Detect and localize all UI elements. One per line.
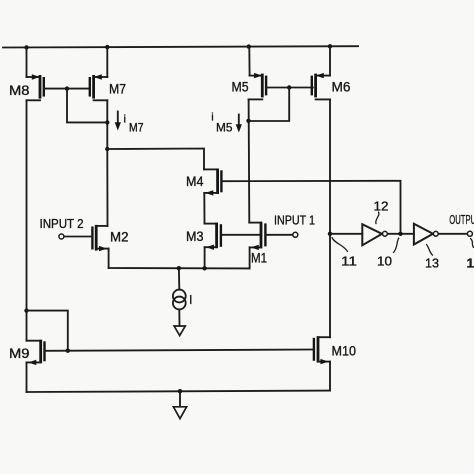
svg-text:M8: M8 <box>9 83 30 98</box>
wire M6 drain down to M10 <box>329 99 331 337</box>
bubble of inverter 12 <box>383 231 388 236</box>
node 11 junction on M6 drain <box>328 232 332 236</box>
wire M4 gate to node 10 <box>221 181 400 234</box>
svg-text:M7: M7 <box>129 121 144 135</box>
transistor M4 <box>204 169 221 196</box>
svg-text:M4: M4 <box>186 174 204 189</box>
wire M10 source down <box>329 362 331 391</box>
top supply rail <box>3 46 358 47</box>
inverter 13 <box>414 224 433 245</box>
svg-text:i: i <box>211 112 213 124</box>
svg-text:M7: M7 <box>109 82 126 97</box>
wire node to M4 drain <box>107 149 204 170</box>
transistor M3 <box>205 223 221 250</box>
current source I <box>173 268 186 326</box>
node tail/M3 source <box>202 266 206 270</box>
node M7 drain/gate link <box>105 120 109 124</box>
terminal INPUT 2 <box>59 234 64 239</box>
wire M4 source to M3 drain <box>203 193 205 224</box>
terminal OUTPUT <box>467 231 472 236</box>
wire M5 drain down to M1 drain <box>248 99 251 222</box>
tail rail wire <box>109 267 250 269</box>
wire M5/M6 gate link <box>266 87 313 89</box>
leader 13 <box>427 245 433 256</box>
wire M9 source down <box>26 362 28 392</box>
node tail/current source <box>177 266 181 270</box>
wire inverter 12 out to inverter 13 <box>388 233 414 235</box>
node M7drain/M2drain/M4 wire junction <box>105 147 109 151</box>
transistor M1 <box>249 222 265 250</box>
node M9 gate tap <box>24 308 28 312</box>
wire M7 drain down <box>106 100 108 149</box>
wire node down to M2 drain <box>106 149 108 226</box>
leader 12 <box>376 212 379 224</box>
wire M9 gate-drain link <box>27 311 68 351</box>
transistor M7 <box>90 74 108 100</box>
svg-text:14: 14 <box>467 256 474 271</box>
node M9 gate junction <box>66 349 70 353</box>
node 10 junction <box>398 232 402 236</box>
svg-text:M3: M3 <box>186 229 204 244</box>
node M8/M7 gate junction <box>65 86 69 90</box>
wire inverter 13 to output terminal <box>439 233 467 235</box>
wire M1 gate lead <box>265 234 292 236</box>
svg-text:12: 12 <box>374 199 389 214</box>
svg-text:INPUT 2: INPUT 2 <box>40 216 84 231</box>
terminal INPUT 1 <box>293 232 298 237</box>
wire M2 source to tail <box>108 249 110 268</box>
node: rail/M8 junction <box>24 45 28 49</box>
svg-text:M6: M6 <box>332 80 351 95</box>
svg-text:10: 10 <box>377 254 392 269</box>
current arrow i_M7 <box>115 112 121 131</box>
inverter 12 <box>362 224 382 245</box>
node: rail/M6 junction <box>328 44 332 48</box>
node: rail/M5 junction <box>247 44 251 48</box>
node M5/M6 gate junction <box>287 85 291 89</box>
svg-text:M5: M5 <box>216 121 233 135</box>
svg-text:11: 11 <box>341 254 357 269</box>
ground under bottom rail <box>173 391 186 418</box>
wire gate-drain diode link of M5 <box>249 88 290 122</box>
wire M8 drain down left side to M9 <box>26 100 28 340</box>
bubble of inverter 13 <box>433 231 438 236</box>
wire M3 source to tail <box>204 247 206 268</box>
wire M9/M10 gate line <box>45 350 314 351</box>
svg-text:INPUT 1: INPUT 1 <box>274 213 315 228</box>
wire M3 gate to M1 gate <box>221 234 261 236</box>
wire M1 source to tail <box>249 247 251 268</box>
transistor M2 <box>92 225 108 251</box>
transistor M5 <box>249 73 267 100</box>
wire M5 source to rail <box>248 47 250 76</box>
node bottom rail/ground <box>178 389 182 393</box>
leader 11 <box>332 238 348 252</box>
svg-text:M2: M2 <box>110 230 129 245</box>
bottom rail wire <box>27 391 331 392</box>
wire M6 source to rail <box>329 46 331 75</box>
ground under current source <box>174 326 185 336</box>
wire M7 source to rail <box>106 47 108 77</box>
node: rail/M7 junction <box>105 45 109 49</box>
svg-text:M9: M9 <box>9 346 30 361</box>
svg-text:13: 13 <box>425 256 439 271</box>
svg-text:I: I <box>189 293 192 307</box>
wire M8 source to rail <box>26 47 28 77</box>
transistor M10 <box>314 336 330 364</box>
leader 10 <box>394 238 399 253</box>
wire gate-drain diode link of M7 <box>67 89 107 123</box>
transistor M6 <box>312 73 330 100</box>
transistor M9 <box>27 340 45 365</box>
svg-text:M5: M5 <box>232 80 249 95</box>
svg-text:M10: M10 <box>332 344 357 359</box>
wire node 11 to inverter 12 <box>330 233 362 235</box>
svg-text:M1: M1 <box>251 251 267 266</box>
svg-text:i: i <box>124 114 126 126</box>
node M5 drain/gate link <box>246 119 250 123</box>
transistor M8 <box>27 74 44 100</box>
leader 14 <box>471 239 474 248</box>
svg-text:OUTPUT: OUTPUT <box>449 212 474 227</box>
wire M2 gate lead <box>64 236 92 238</box>
wire M8/M7 gate link <box>44 88 90 90</box>
